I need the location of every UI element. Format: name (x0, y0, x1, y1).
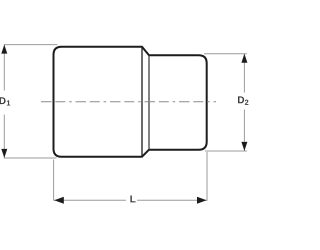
L left extension line (53, 160, 55, 201)
L dimension line (54, 199, 126, 201)
D1 arrow down (1, 149, 7, 158)
label D1 (0, 97, 6, 104)
D2 top extension line (204, 53, 247, 55)
D2 arrow down (241, 142, 247, 151)
center line (41, 101, 216, 103)
D2 bottom extension line (205, 150, 247, 152)
D1 arrow up (1, 45, 7, 54)
L right extension line (206, 152, 208, 201)
D2 arrow up (241, 54, 247, 63)
label D2 (238, 96, 244, 103)
D1 top extension line (4, 44, 58, 46)
step edge line 2 (148, 55, 150, 150)
D1 dimension line (3, 45, 5, 90)
L arrow left (54, 197, 64, 204)
socket body outline (54, 47, 207, 157)
step edge line 1 (141, 47, 143, 157)
D1 bottom extension line (4, 157, 57, 159)
D2 dimension line (243, 54, 245, 92)
label L (130, 196, 135, 203)
L arrow right (197, 197, 207, 204)
